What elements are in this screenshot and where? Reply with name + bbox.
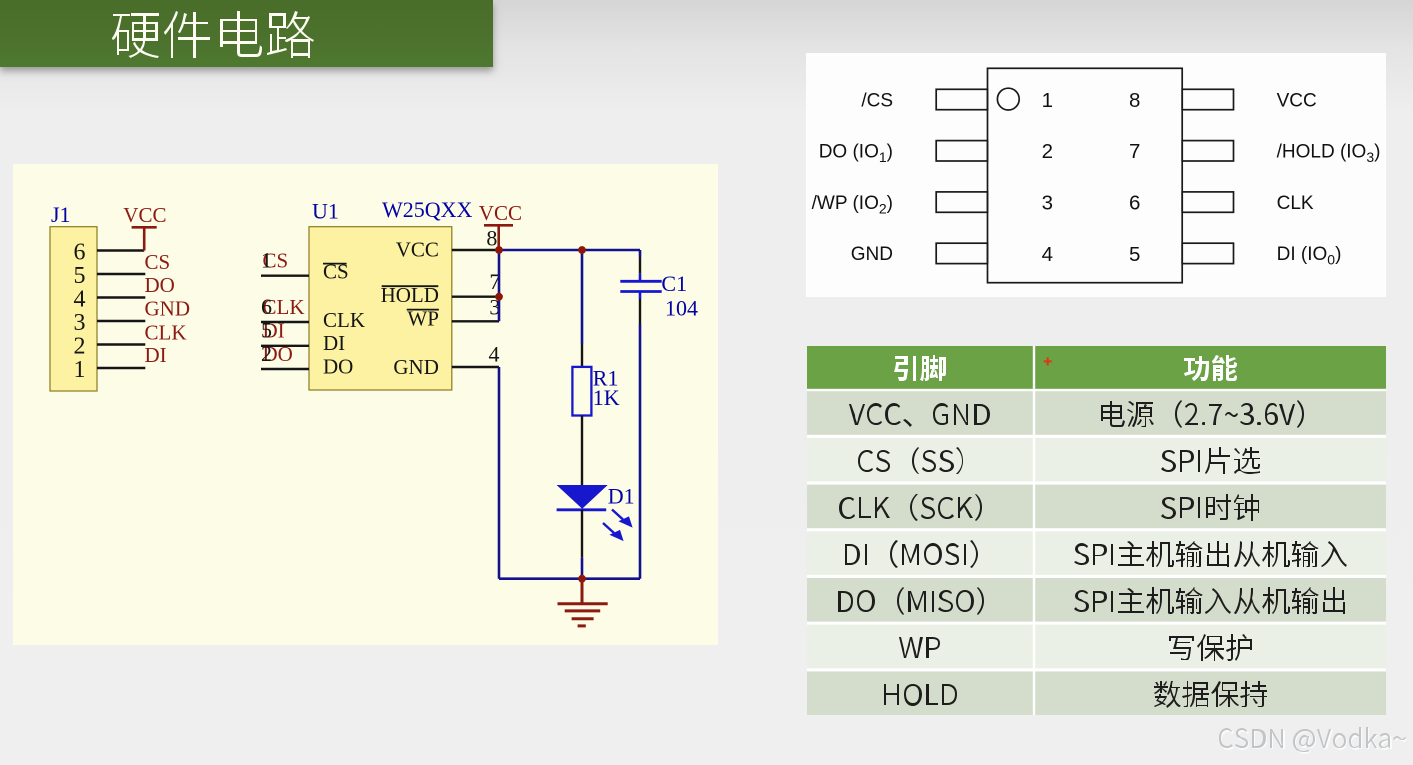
LED D1 cathode bar (557, 508, 607, 511)
svg-text:GND: GND (393, 355, 439, 379)
LED emission arrow 1 (612, 510, 623, 520)
svg-text:CLK: CLK (1277, 193, 1314, 214)
wire VCC to R1 (581, 250, 584, 344)
svg-text:4: 4 (489, 341, 500, 366)
svg-text:VCC: VCC (1277, 90, 1317, 111)
C1 top pin (639, 257, 641, 274)
svg-text:2: 2 (1042, 140, 1053, 163)
svg-text:VCC: VCC (479, 201, 522, 225)
svg-text:2: 2 (261, 341, 272, 366)
pin 2 pad (936, 141, 987, 161)
svg-text:5: 5 (1129, 243, 1140, 266)
wire C1 to ground rail (639, 324, 642, 579)
pin 4 pad (936, 243, 987, 263)
wire J1 pin5 CS (97, 273, 145, 275)
wire J1 pin1 DI (97, 367, 145, 369)
svg-text:3: 3 (1042, 192, 1053, 215)
svg-text:DO: DO (323, 354, 353, 378)
pin 1 indicator circle (997, 88, 1019, 110)
svg-text:6: 6 (74, 240, 86, 266)
svg-text:1: 1 (261, 248, 272, 273)
U1 pin name WP with overline (407, 306, 439, 330)
svg-text:8: 8 (486, 226, 497, 251)
svg-text:7: 7 (1129, 140, 1140, 163)
svg-text:C1: C1 (661, 271, 687, 296)
wire U1 pin8 VCC (452, 249, 499, 251)
wire J1 pin6 to VCC (97, 249, 144, 251)
svg-text:1K: 1K (593, 385, 620, 410)
wire U1 pin4 GND (452, 366, 499, 368)
pin 5 pad (1182, 243, 1233, 263)
svg-text:/WP (IO2): /WP (IO2) (812, 193, 893, 217)
wire U1 pin1 CS (261, 275, 309, 277)
power symbol VCC at U1 (484, 225, 513, 250)
IC U1 body (309, 227, 452, 390)
junction at pin8 (495, 246, 503, 254)
C1 bottom pin (639, 299, 641, 325)
wire U1 pin7 HOLD (452, 296, 499, 298)
U1 pin name HOLD with overline (381, 283, 439, 307)
svg-text:W25QXX: W25QXX (382, 197, 473, 222)
title banner (0, 0, 493, 67)
D1 anode pin (581, 450, 583, 485)
svg-text:/HOLD (IO3): /HOLD (IO3) (1277, 142, 1381, 166)
svg-text:104: 104 (665, 295, 698, 320)
wire D1 to ground rail (581, 558, 584, 579)
wire VCC rail horizontal (499, 249, 640, 252)
svg-text:DI (IO0): DI (IO0) (1277, 244, 1342, 268)
svg-text:8: 8 (1129, 89, 1140, 112)
LED D1 triangle (557, 485, 608, 509)
svg-text:VCC: VCC (123, 203, 166, 227)
svg-text:GND: GND (145, 297, 191, 321)
svg-text:D1: D1 (608, 484, 635, 509)
D1 cathode pin (581, 510, 583, 558)
svg-text:5: 5 (261, 317, 272, 342)
wire VCC rail to C1 (639, 250, 642, 257)
svg-text:CS: CS (145, 250, 171, 274)
svg-text:J1: J1 (51, 202, 71, 227)
svg-text:CLK: CLK (323, 308, 365, 332)
wire ground rail horizontal (499, 577, 640, 580)
R1 bottom pin (581, 416, 583, 451)
pin 1 pad (936, 89, 987, 109)
svg-text:DO (IO1): DO (IO1) (819, 142, 893, 166)
svg-text:3: 3 (74, 310, 86, 336)
R1 top pin (581, 344, 583, 367)
svg-text:U1: U1 (312, 199, 339, 224)
pin 6 pad (1182, 192, 1233, 212)
wire J1 pin4 DO (97, 296, 145, 298)
wire U1 pin5 DI (261, 345, 309, 347)
svg-text:VCC: VCC (396, 238, 439, 262)
svg-text:2: 2 (74, 334, 86, 360)
ground symbol (558, 579, 608, 626)
junction at ground rail (578, 575, 586, 583)
svg-text:1: 1 (1042, 89, 1053, 112)
junction at pin7 (495, 293, 503, 301)
svg-text:6: 6 (1129, 192, 1140, 215)
junction VCC rail at R1 branch (578, 246, 586, 254)
svg-text:DI: DI (323, 331, 345, 355)
schematic panel (13, 164, 718, 645)
wire HOLD-WP vertical (498, 250, 501, 321)
connector J1 body (50, 227, 97, 391)
svg-text:4: 4 (74, 287, 86, 313)
svg-text:GND: GND (851, 244, 893, 265)
power symbol VCC at J1 (132, 227, 157, 250)
svg-text:CLK: CLK (145, 321, 187, 345)
wire GND left vertical (498, 367, 501, 579)
svg-text:DI: DI (145, 343, 167, 367)
pinout panel (806, 53, 1386, 297)
CSDN watermark (1217, 722, 1411, 761)
capacitor C1 plates (620, 281, 661, 291)
svg-text:1: 1 (74, 357, 86, 383)
pin function table (807, 346, 1386, 720)
IC package body (988, 68, 1183, 282)
wire J1 pin2 CLK (97, 343, 145, 345)
pin 8 pad (1182, 89, 1233, 109)
resistor R1 (572, 367, 591, 416)
svg-text:DO: DO (145, 273, 175, 297)
U1 pin name CS with overline (323, 260, 349, 284)
C1 bottom pin stub (639, 292, 642, 299)
wire U1 pin6 CLK (261, 321, 309, 323)
svg-text:4: 4 (1042, 243, 1053, 266)
LED emission arrow 2 (603, 523, 614, 533)
svg-text:/CS: /CS (861, 90, 893, 111)
pin 7 pad (1182, 141, 1233, 161)
pin 3 pad (936, 192, 987, 212)
wire J1 pin3 GND (97, 320, 145, 322)
wire U1 pin3 WP (452, 320, 499, 322)
svg-text:6: 6 (261, 294, 272, 319)
C1 top pin stub (639, 274, 642, 281)
svg-text:5: 5 (74, 263, 86, 289)
wire U1 pin2 DO (261, 368, 309, 370)
